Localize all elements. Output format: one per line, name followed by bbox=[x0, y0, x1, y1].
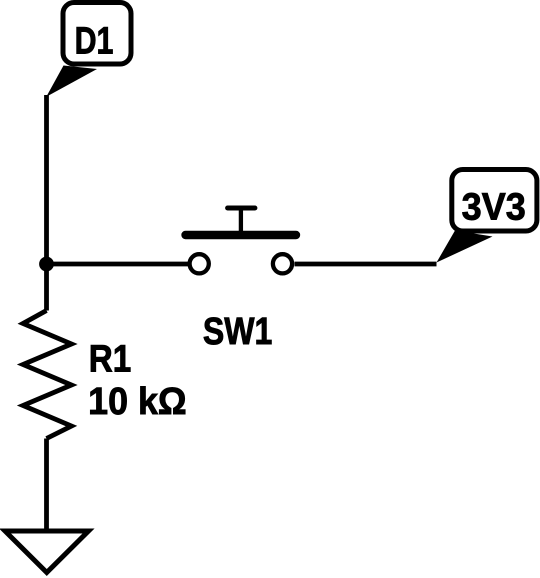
wire: junction to switch left terminal bbox=[47, 262, 190, 267]
switch SW1 button cap bbox=[228, 206, 255, 211]
switch SW1 actuator bar bbox=[186, 231, 297, 239]
net label D1 tail bbox=[46, 66, 97, 97]
wire: resistor bottom to ground bbox=[44, 439, 49, 532]
net label 3V3 box bbox=[452, 170, 537, 232]
svg-text:3V3: 3V3 bbox=[462, 186, 526, 228]
node junction dot bbox=[39, 257, 54, 272]
switch SW1 right terminal circle bbox=[273, 254, 292, 273]
switch SW1 left terminal circle bbox=[190, 254, 209, 273]
net label D1 box bbox=[63, 3, 131, 65]
svg-text:D1: D1 bbox=[75, 20, 114, 62]
switch SW1 stem bbox=[239, 208, 243, 235]
wire: switch right terminal to 3V3 tail bbox=[295, 262, 437, 267]
svg-text:SW1: SW1 bbox=[203, 311, 272, 353]
resistor R1 zigzag bbox=[23, 311, 72, 439]
svg-text:10 kΩ: 10 kΩ bbox=[88, 380, 186, 422]
ground symbol bbox=[5, 531, 89, 573]
net label 3V3 tail bbox=[437, 231, 493, 263]
svg-text:R1: R1 bbox=[89, 337, 131, 380]
wire: D1 tail down to junction and resistor top bbox=[44, 95, 49, 311]
